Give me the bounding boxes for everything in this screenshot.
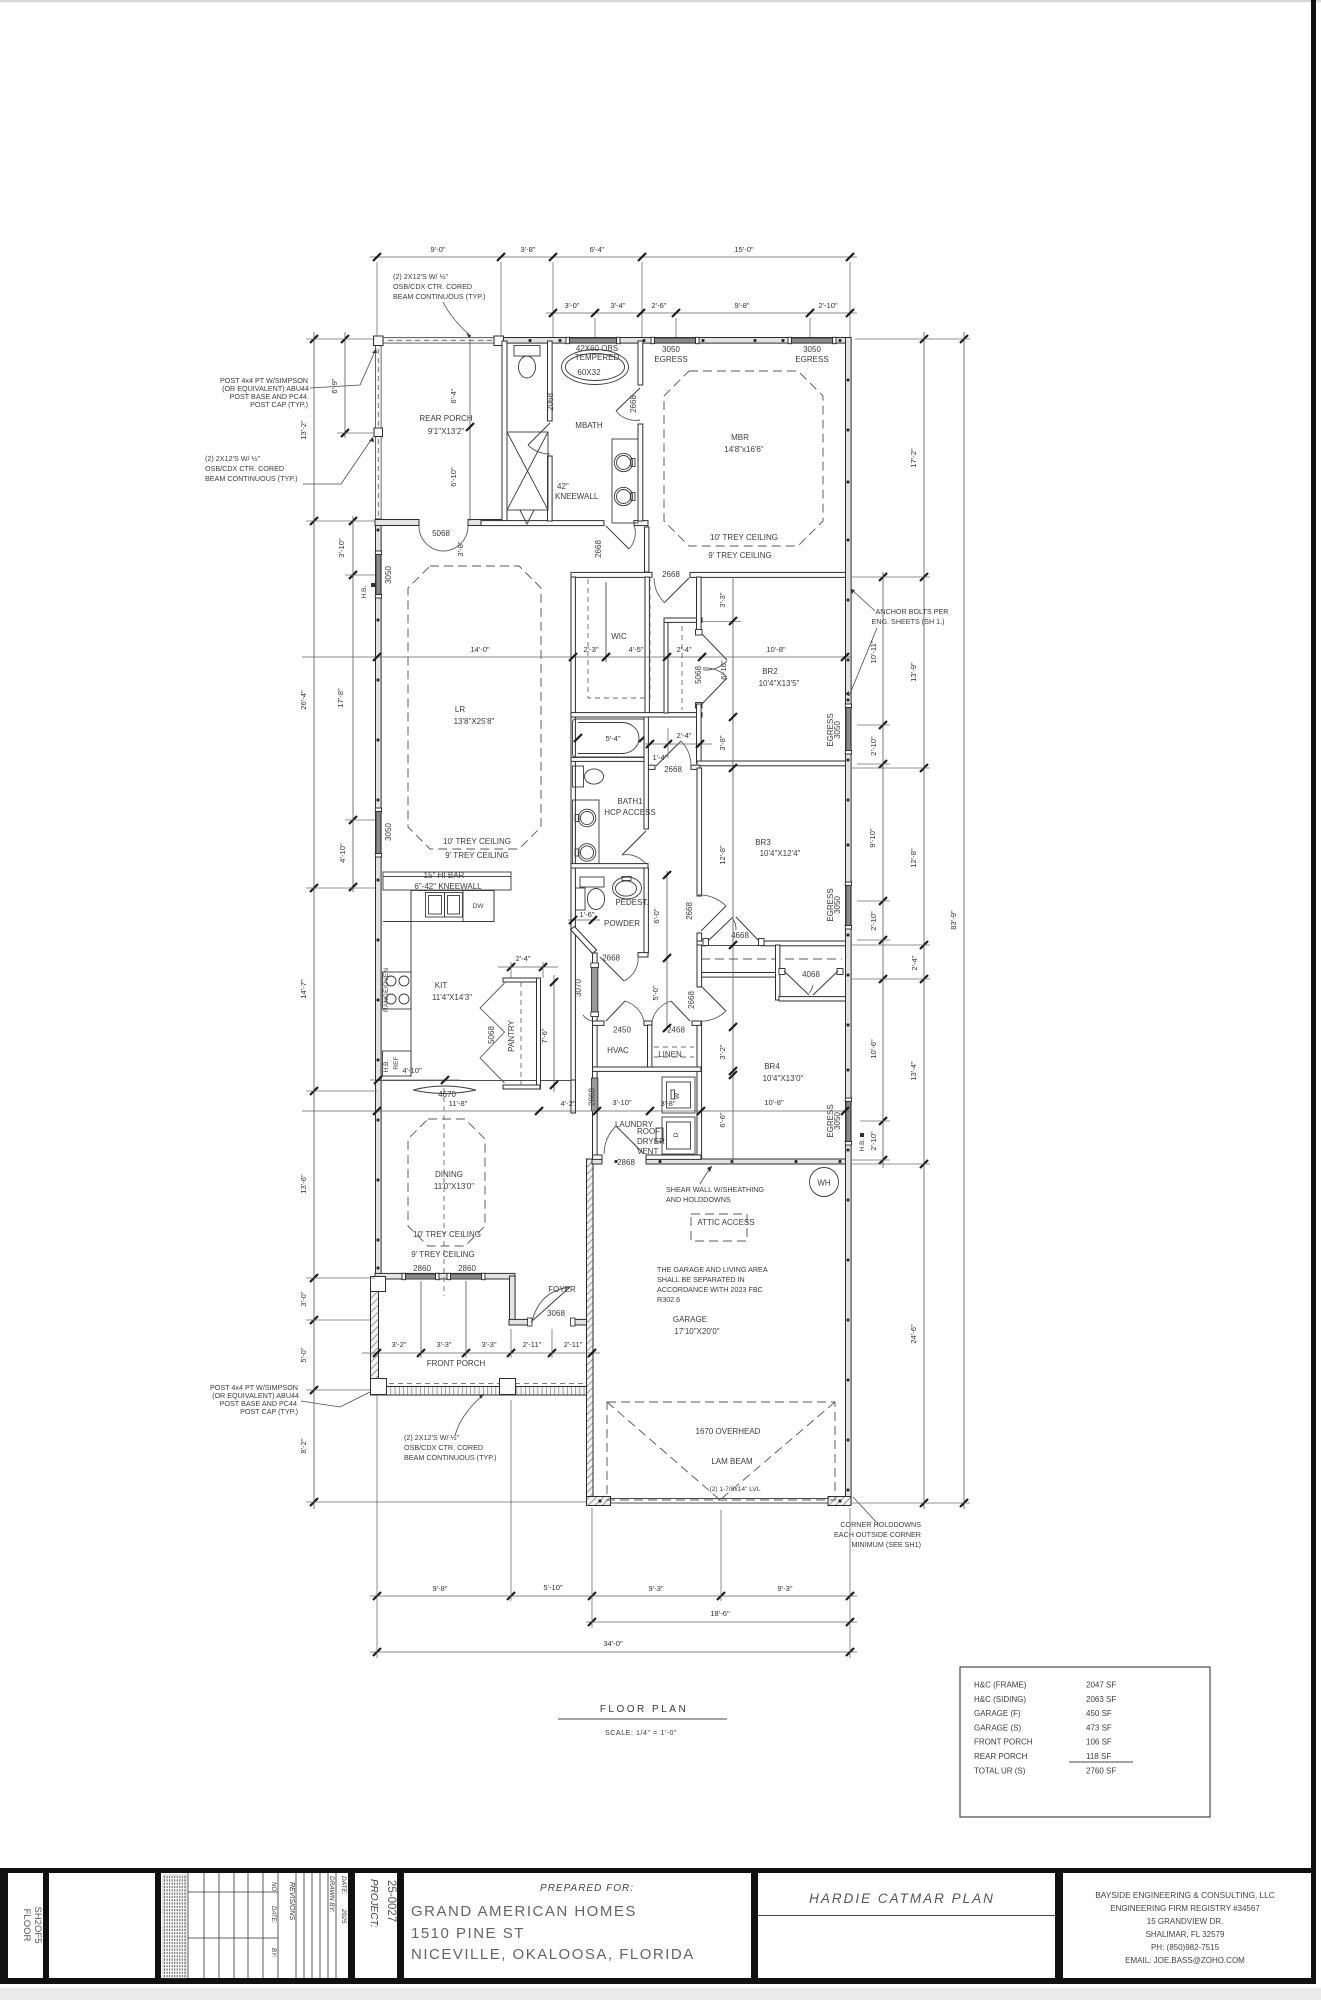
BR2 west wall (closet wall lower part) xyxy=(697,622,742,764)
svg-text:3050: 3050 xyxy=(384,566,393,584)
svg-text:RANGE/OVEN: RANGE/OVEN xyxy=(383,968,390,1012)
svg-text:9'1"X13'2": 9'1"X13'2" xyxy=(428,427,464,436)
range/oven xyxy=(383,968,412,1012)
svg-text:2'-4": 2'-4" xyxy=(676,731,691,740)
door 2468 linen xyxy=(652,1001,690,1021)
svg-text:EGRESS: EGRESS xyxy=(826,888,835,921)
svg-text:H.B.: H.B. xyxy=(361,585,368,598)
svg-text:BATH1: BATH1 xyxy=(617,797,643,806)
svg-text:TEMPERED: TEMPERED xyxy=(575,353,620,362)
svg-text:3'-8": 3'-8" xyxy=(456,541,465,556)
door-window size labels xyxy=(384,345,842,1318)
svg-text:106 SF: 106 SF xyxy=(1086,1738,1112,1747)
svg-text:MBATH: MBATH xyxy=(575,421,603,430)
bottom gray strip xyxy=(0,1988,1321,2000)
svg-text:3070: 3070 xyxy=(574,979,583,997)
svg-text:6'-4": 6'-4" xyxy=(449,388,458,403)
pantry walls xyxy=(503,978,541,1089)
powder chamfer wall xyxy=(571,927,597,954)
svg-text:GARAGE (F): GARAGE (F) xyxy=(974,1709,1021,1718)
svg-text:6'-10": 6'-10" xyxy=(719,660,728,680)
svg-text:OSB/CDX CTR. CORED: OSB/CDX CTR. CORED xyxy=(404,1443,483,1452)
door 2068 toilet room xyxy=(528,423,550,454)
refrigerator xyxy=(383,1051,412,1076)
master tub 60X32 xyxy=(562,350,629,385)
note: 2x12 beam (porch bottom) xyxy=(404,1394,497,1462)
dimension col right mid (17-2 / 13-9 / 12-8 / 2-4 / 13-4 / 24-6) xyxy=(909,332,928,1509)
svg-text:2450: 2450 xyxy=(613,1026,631,1035)
BR3 west wall w/ door xyxy=(697,768,702,941)
svg-text:THE GARAGE AND LIVING AREA: THE GARAGE AND LIVING AREA xyxy=(657,1265,768,1274)
svg-text:15 GRANDVIEW DR.: 15 GRANDVIEW DR. xyxy=(1147,1917,1223,1926)
svg-text:PEDEST.: PEDEST. xyxy=(615,898,648,907)
powder north wall xyxy=(571,864,648,868)
door 2668 BR4 entry xyxy=(698,986,726,1021)
svg-text:(2) 2X12'S W/ ½": (2) 2X12'S W/ ½" xyxy=(393,272,449,281)
svg-text:3'-3": 3'-3" xyxy=(481,1340,496,1349)
door 2668 powder xyxy=(600,956,638,981)
exterior wall: left side xyxy=(376,519,382,1279)
porch corner post dining xyxy=(371,1277,386,1292)
dimension row front porch (3-2 / 3-3 / 3-3 / 2-11 / 2-11) xyxy=(362,1281,600,1358)
svg-text:GARAGE: GARAGE xyxy=(673,1315,707,1324)
label MBATH xyxy=(575,421,603,430)
svg-text:LAM BEAM: LAM BEAM xyxy=(711,1457,753,1466)
svg-text:2'-10": 2'-10" xyxy=(869,1131,878,1151)
svg-text:3'-8": 3'-8" xyxy=(520,245,535,254)
dimension row bottom 3 (34-0) xyxy=(370,1639,857,1656)
label bath1 xyxy=(604,797,655,817)
interior dim 4-10 kitchen xyxy=(370,1066,460,1084)
svg-text:PREPARED FOR:: PREPARED FOR: xyxy=(540,1883,634,1894)
label PEDEST. xyxy=(615,898,648,907)
svg-text:60X32: 60X32 xyxy=(577,368,601,377)
svg-text:17'-8": 17'-8" xyxy=(336,688,345,708)
svg-text:POST CAP (TYP.): POST CAP (TYP.) xyxy=(250,400,308,409)
BR3 south wall xyxy=(697,941,846,946)
door 2668 MBR entry xyxy=(654,578,689,603)
svg-text:2468: 2468 xyxy=(667,1026,685,1035)
HVAC/linen divider wall xyxy=(648,1025,652,1071)
HVAC/linen bottom wall xyxy=(593,1067,702,1071)
svg-text:3'-8": 3'-8" xyxy=(718,735,727,750)
svg-text:VENT: VENT xyxy=(637,1147,658,1156)
svg-text:REAR PORCH: REAR PORCH xyxy=(974,1752,1028,1761)
svg-text:D: D xyxy=(673,1132,680,1137)
svg-text:2'-11": 2'-11" xyxy=(523,1340,542,1349)
MBR west wall w/ 2668 door opening xyxy=(638,341,643,521)
svg-text:4'-2": 4'-2" xyxy=(560,1099,575,1108)
shower enclosure with X xyxy=(507,432,548,524)
garage front wall and corner pads xyxy=(586,1497,851,1506)
svg-text:13'-6": 13'-6" xyxy=(299,1174,308,1194)
left extension lines xyxy=(306,339,586,1502)
porch post (rear left mid) xyxy=(374,428,383,437)
svg-text:FLOOR PLAN: FLOOR PLAN xyxy=(600,1704,688,1715)
label rear porch xyxy=(419,414,473,436)
svg-text:10'-6": 10'-6" xyxy=(869,1039,878,1059)
linen shelf dashes xyxy=(654,1047,694,1057)
svg-text:2'-3": 2'-3" xyxy=(583,645,598,654)
svg-text:POST CAP (TYP.): POST CAP (TYP.) xyxy=(240,1407,298,1416)
note: 2x12 beam (left) xyxy=(205,437,374,484)
svg-text:14'8"x16'6": 14'8"x16'6" xyxy=(724,445,764,454)
kitchen west counter xyxy=(383,891,411,1078)
svg-text:25-0027: 25-0027 xyxy=(385,1880,397,1922)
title cell revisions table grid xyxy=(188,1873,347,1978)
label DINING xyxy=(434,1170,474,1191)
note: garage separation xyxy=(657,1265,768,1304)
svg-text:10'-8": 10'-8" xyxy=(764,1098,784,1107)
svg-text:3'-3": 3'-3" xyxy=(436,1340,451,1349)
svg-text:AND HOLDDOWNS: AND HOLDDOWNS xyxy=(666,1195,731,1204)
door 2450 HVAC xyxy=(606,1001,644,1021)
svg-text:14'-7": 14'-7" xyxy=(299,979,308,999)
svg-text:EGRESS: EGRESS xyxy=(795,355,828,364)
svg-text:5068: 5068 xyxy=(487,1026,496,1044)
label 42in kneewall xyxy=(555,482,599,501)
svg-text:3'-8": 3'-8" xyxy=(660,1099,675,1108)
powder pedestal sink xyxy=(613,877,642,900)
svg-text:12'-8": 12'-8" xyxy=(909,848,918,868)
rear porch left edge (dashed open side) xyxy=(376,338,382,522)
svg-text:2'-4": 2'-4" xyxy=(676,645,691,654)
svg-text:10'4"X13'5": 10'4"X13'5" xyxy=(759,679,800,688)
note: post 4x4 (top left) xyxy=(220,349,377,409)
svg-text:6'-9": 6'-9" xyxy=(330,378,339,393)
closet rod dashed line xyxy=(701,958,842,960)
kitchen sink cabinet xyxy=(411,891,494,922)
svg-text:3050: 3050 xyxy=(662,345,680,354)
svg-text:DRAWN BY:: DRAWN BY: xyxy=(328,1876,335,1913)
master bath bottom wall w/ 2668 opening xyxy=(481,521,648,526)
svg-text:EMAIL: JOE.BASS@ZOHO.COM: EMAIL: JOE.BASS@ZOHO.COM xyxy=(1125,1956,1245,1965)
label BR3 xyxy=(755,838,800,858)
svg-text:34'-0": 34'-0" xyxy=(603,1639,623,1648)
closet 4668 double doors (hall strip) xyxy=(703,917,764,946)
svg-text:6"-42" KNEEWALL: 6"-42" KNEEWALL xyxy=(414,882,482,891)
svg-text:2'-11": 2'-11" xyxy=(564,1340,583,1349)
svg-text:SCALE: 1/4" = 1'-0": SCALE: 1/4" = 1'-0" xyxy=(605,1728,677,1737)
svg-text:(2) 2X12'S W/ ½": (2) 2X12'S W/ ½" xyxy=(205,454,261,463)
svg-text:PH: (850)982-7515: PH: (850)982-7515 xyxy=(1151,1943,1220,1952)
svg-text:ENG. SHEETS (SH 1.): ENG. SHEETS (SH 1.) xyxy=(871,617,944,626)
bottom extension lines xyxy=(377,1395,850,1658)
master vanity double sinks xyxy=(612,439,638,523)
svg-text:24'-6": 24'-6" xyxy=(909,1324,918,1344)
label WIC xyxy=(611,632,627,641)
svg-text:DW: DW xyxy=(473,903,485,910)
window 2860 dining #1 xyxy=(402,1273,439,1279)
porch post (rear top right) xyxy=(494,336,504,346)
svg-text:9' TREY CEILING: 9' TREY CEILING xyxy=(411,1250,474,1259)
svg-text:ENGINEERING FIRM REGISTRY #345: ENGINEERING FIRM REGISTRY #34567 xyxy=(1110,1904,1260,1913)
svg-text:9'-0": 9'-0" xyxy=(430,245,445,254)
tub nook south wall w/ 2668 door xyxy=(644,765,700,769)
window 3050 egress BR4 (right wall) xyxy=(845,1098,851,1145)
svg-text:9'-8": 9'-8" xyxy=(432,1584,447,1593)
svg-text:9'-3": 9'-3" xyxy=(648,1584,663,1593)
label roof dryer vent xyxy=(637,1127,665,1156)
svg-text:6'-10": 6'-10" xyxy=(449,467,458,487)
label GARAGE xyxy=(673,1315,720,1336)
interior vertical dim col x733 (3-3 / 3-8 / 12-8 / 3-2 / 6-6) xyxy=(718,577,737,1164)
svg-text:HVAC: HVAC xyxy=(607,1046,629,1055)
svg-text:13'-4": 13'-4" xyxy=(909,1061,918,1081)
window 3050 living room (left wall lower) xyxy=(375,808,381,857)
note: post 4x4 (porch bottom) xyxy=(210,1383,370,1416)
svg-text:2'-6": 2'-6" xyxy=(651,301,666,310)
window 3050 egress BR3 (right wall) xyxy=(845,882,851,929)
svg-text:42": 42" xyxy=(557,482,569,491)
title block borders xyxy=(0,1868,1316,1984)
label ATTIC ACCESS xyxy=(697,1218,754,1227)
porch post front-middle xyxy=(500,1379,516,1395)
svg-text:BEAM CONTINUOUS (TYP.): BEAM CONTINUOUS (TYP.) xyxy=(404,1453,497,1462)
svg-text:5068: 5068 xyxy=(694,666,703,684)
label LAM BEAM xyxy=(711,1457,753,1466)
title cell prepared for xyxy=(411,1883,695,1963)
svg-text:2668: 2668 xyxy=(602,954,620,963)
svg-text:NO.: NO. xyxy=(270,1882,276,1893)
pocket door 3070 in hall wall xyxy=(583,963,599,1021)
title cell revisions fine print xyxy=(163,1875,186,1978)
svg-text:8'-2": 8'-2" xyxy=(299,1438,308,1453)
powder south wall w/ 2668 door xyxy=(638,953,648,957)
front porch left wall (hatched) xyxy=(371,1279,379,1389)
kitchen-dining cased opening 4670 xyxy=(375,1081,571,1094)
window 42X60 OBS tempered (master bath) xyxy=(566,337,620,343)
door 2668 bath nook xyxy=(656,741,691,766)
garage overhead door dashed outline with X xyxy=(607,1402,835,1500)
label BR4 xyxy=(763,1062,804,1083)
BR4 west wall w/ door xyxy=(697,945,702,1159)
svg-text:2'-4": 2'-4" xyxy=(910,955,919,970)
svg-text:PROJECT:: PROJECT: xyxy=(368,1879,379,1928)
interior dimension row y657 (14-0 / 2-3 / 4-5 / 2-4 / 10-8) xyxy=(302,645,851,661)
svg-text:ATTIC ACCESS: ATTIC ACCESS xyxy=(697,1218,754,1227)
svg-text:ROOF: ROOF xyxy=(637,1127,660,1136)
svg-text:2868: 2868 xyxy=(617,1158,635,1167)
svg-text:DRYER: DRYER xyxy=(637,1137,665,1146)
svg-text:2'-4": 2'-4" xyxy=(515,954,530,963)
label PANTRY xyxy=(507,1019,516,1051)
svg-text:6'-6": 6'-6" xyxy=(718,1112,727,1127)
foyer west wall xyxy=(510,1276,516,1325)
svg-text:4670: 4670 xyxy=(438,1090,456,1099)
svg-text:2668: 2668 xyxy=(662,570,680,579)
5068 closet double doors xyxy=(696,630,728,709)
svg-text:9'-3": 9'-3" xyxy=(777,1584,792,1593)
exterior wall: top (house) xyxy=(502,338,851,344)
label 1670 OVERHEAD xyxy=(696,1427,761,1436)
svg-text:H&C (SIDING): H&C (SIDING) xyxy=(974,1695,1026,1704)
LR trey ceiling dashed outline xyxy=(408,566,541,849)
bath1 toilet xyxy=(573,766,604,787)
5068 double door at rear porch xyxy=(419,526,468,551)
svg-text:SHALL BE SEPARATED IN: SHALL BE SEPARATED IN xyxy=(657,1275,745,1284)
svg-text:13'-2": 13'-2" xyxy=(299,420,308,440)
svg-text:3'-10": 3'-10" xyxy=(337,538,346,558)
window 3050 egress MBR #1 xyxy=(651,337,699,343)
svg-text:BEAM CONTINUOUS (TYP.): BEAM CONTINUOUS (TYP.) xyxy=(205,474,298,483)
sheet right border xyxy=(1311,0,1316,1984)
attic access dashed box xyxy=(691,1214,747,1241)
label tub texts xyxy=(575,344,620,377)
linen closet walls (hall) xyxy=(664,577,702,713)
svg-text:BY:: BY: xyxy=(270,1948,276,1958)
powder toilet xyxy=(576,888,605,910)
svg-text:5068: 5068 xyxy=(432,529,450,538)
svg-text:FRONT PORCH: FRONT PORCH xyxy=(974,1738,1033,1747)
svg-text:3'-0": 3'-0" xyxy=(299,1291,308,1306)
hose bib left upper xyxy=(361,583,375,598)
svg-text:4'-5": 4'-5" xyxy=(628,645,643,654)
svg-text:3'-2": 3'-2" xyxy=(718,1044,727,1059)
svg-text:83'-9": 83'-9" xyxy=(949,910,958,930)
interior dim kitchen (2-4) xyxy=(498,954,558,978)
label MBR xyxy=(724,433,764,454)
svg-text:4668: 4668 xyxy=(731,931,749,940)
svg-text:EGRESS: EGRESS xyxy=(654,355,687,364)
title cell project number xyxy=(368,1879,397,1928)
exterior wall: right side xyxy=(846,338,852,1504)
title cell plan name xyxy=(758,1891,1055,1916)
svg-text:9' TREY CEILING: 9' TREY CEILING xyxy=(445,851,508,860)
hose bib right xyxy=(859,1133,866,1151)
svg-text:3050: 3050 xyxy=(384,823,393,841)
svg-text:GARAGE (S): GARAGE (S) xyxy=(974,1723,1021,1732)
svg-text:15" HI BAR: 15" HI BAR xyxy=(424,871,465,880)
front porch front wall (hatched) with beam dashes xyxy=(371,1384,587,1395)
svg-text:BR3: BR3 xyxy=(755,838,771,847)
svg-text:DATE:: DATE: xyxy=(340,1876,347,1895)
note: shear wall xyxy=(666,1166,764,1204)
label LINEN xyxy=(658,1050,682,1059)
svg-text:H.B.: H.B. xyxy=(383,1059,390,1072)
anchor-bolt dots on right wall xyxy=(847,379,850,1492)
door 2868 laundry to garage xyxy=(604,1126,644,1154)
svg-text:12'-8": 12'-8" xyxy=(718,845,727,865)
interior vertical dim porch (6-4 / 6-10) xyxy=(449,339,474,521)
svg-text:2668: 2668 xyxy=(594,540,603,558)
svg-text:11'0"X13'0": 11'0"X13'0" xyxy=(434,1182,474,1191)
svg-text:WH: WH xyxy=(817,1179,831,1188)
svg-text:42X60 OBS: 42X60 OBS xyxy=(576,344,618,353)
window 3050 egress MBR #2 xyxy=(788,337,836,343)
svg-text:7'-6": 7'-6" xyxy=(540,1028,549,1043)
svg-text:POWDER: POWDER xyxy=(604,919,640,928)
dimension row top inner (3-0 / 3-4 / 2-6 / 9-8 / 2-10) xyxy=(546,301,857,337)
svg-text:9'-8": 9'-8" xyxy=(734,301,749,310)
garage top shear wall w/ 2868 door opening xyxy=(592,1159,846,1164)
svg-text:(2) 2X12'S W/ ½": (2) 2X12'S W/ ½" xyxy=(404,1433,460,1442)
WIC south wall xyxy=(571,713,702,717)
svg-text:3050: 3050 xyxy=(803,345,821,354)
dimension col left outer (13-2 / 26-4 / 14-7 / 13-6 / 3-0 / 5-0 / 8-2) xyxy=(299,332,318,1509)
hall west wall (kitchen side) xyxy=(593,953,598,1159)
svg-text:BR2: BR2 xyxy=(762,667,778,676)
svg-text:2668: 2668 xyxy=(685,902,694,920)
exterior wall: dining front xyxy=(375,1273,515,1279)
svg-text:1'-6": 1'-6" xyxy=(579,910,594,919)
toilet room wall (mbath) w/ 2068 door xyxy=(548,341,553,521)
svg-text:11'-8": 11'-8" xyxy=(449,1099,468,1108)
bath1 tub xyxy=(573,719,647,757)
note: 2x12 beam (top) xyxy=(393,272,486,338)
dimension col left inner (6-9 / 3-10 / 17-8 / 4-10) xyxy=(330,332,357,892)
porch corner post (rear top-left) xyxy=(374,336,384,346)
svg-text:EACH OUTSIDE CORNER: EACH OUTSIDE CORNER xyxy=(834,1530,921,1539)
svg-text:17'10"X20'0": 17'10"X20'0" xyxy=(674,1327,719,1336)
svg-text:3'-4": 3'-4" xyxy=(610,301,625,310)
kitchen hi-bar counter xyxy=(383,872,511,890)
interior dim bath (2-4 / 1-4) xyxy=(645,728,712,762)
label LR xyxy=(454,705,495,726)
dimension col right inner (10-11 / 2-10 / 9-10 / 2-10 / 10-6 / 2-10) xyxy=(868,572,887,1168)
svg-text:10'-8": 10'-8" xyxy=(766,645,786,654)
svg-text:5'-0": 5'-0" xyxy=(299,1347,308,1362)
svg-text:2868: 2868 xyxy=(588,1088,597,1106)
svg-text:3'-3": 3'-3" xyxy=(718,592,727,607)
svg-text:GRAND AMERICAN HOMES: GRAND AMERICAN HOMES xyxy=(411,1903,637,1920)
dimension col right outer (83-9) xyxy=(949,332,968,1509)
svg-text:SHEAR WALL W/SHEATHING: SHEAR WALL W/SHEATHING xyxy=(666,1185,764,1194)
label hi bar xyxy=(414,871,482,891)
door 2668 mbath to MBR xyxy=(616,388,640,420)
svg-text:17'-2": 17'-2" xyxy=(909,448,918,468)
label BR2 xyxy=(759,667,800,688)
interior dimension row y1111 (11-8 / 4-2 / 3-10 / 3-8 / 10-8) xyxy=(302,1098,851,1115)
svg-text:ANCHOR BOLTS PER: ANCHOR BOLTS PER xyxy=(876,607,949,616)
svg-text:10' TREY CEILING: 10' TREY CEILING xyxy=(710,533,778,542)
page top edge line xyxy=(0,0,1321,2)
window 3050 egress BR2 (right wall) xyxy=(845,704,851,754)
svg-text:NICEVILLE, OKALOOSA, FLORIDA: NICEVILLE, OKALOOSA, FLORIDA xyxy=(411,1946,695,1963)
svg-text:FOYER: FOYER xyxy=(548,1285,576,1294)
interior vertical dim bath-hall (6-0 / 5-0) xyxy=(651,871,671,1032)
rear porch bottom wall w/ 5068 opening xyxy=(375,520,507,526)
bath1 tub wall below xyxy=(571,757,648,761)
dryer box xyxy=(656,1117,695,1154)
closet strip south wall xyxy=(697,973,776,978)
svg-text:450 SF: 450 SF xyxy=(1086,1709,1112,1718)
garage west wall (hatched) xyxy=(587,1159,594,1503)
svg-text:REF: REF xyxy=(393,1056,400,1069)
svg-text:DATE:: DATE: xyxy=(270,1906,276,1924)
washer box xyxy=(662,1077,695,1113)
svg-text:KNEEWALL: KNEEWALL xyxy=(555,492,599,501)
anchor-bolt dots on top wall xyxy=(529,339,842,342)
label MBR trey ceilings xyxy=(708,533,778,560)
svg-text:2668: 2668 xyxy=(664,765,682,774)
door 2668 bath1 xyxy=(622,831,646,864)
svg-text:2668: 2668 xyxy=(629,395,638,413)
svg-text:2'-10": 2'-10" xyxy=(869,736,878,756)
svg-text:CORNER HOLDDOWNS: CORNER HOLDDOWNS xyxy=(840,1520,921,1529)
svg-text:MINIMUM (SEE SH1): MINIMUM (SEE SH1) xyxy=(852,1540,921,1549)
svg-text:WIC: WIC xyxy=(611,632,627,641)
dishwasher xyxy=(463,891,494,922)
hall/HVAC north wall w/ doors 2450 2468 xyxy=(593,1021,702,1025)
svg-text:PANTRY: PANTRY xyxy=(507,1019,516,1051)
label FOYER xyxy=(548,1285,576,1294)
hose bib left kitchen xyxy=(383,1059,390,1072)
svg-text:3'-0": 3'-0" xyxy=(564,301,579,310)
label LVL xyxy=(710,1486,761,1493)
svg-text:6'-0": 6'-0" xyxy=(652,908,661,923)
foyer front wall w/ 3068 door opening xyxy=(509,1319,592,1325)
